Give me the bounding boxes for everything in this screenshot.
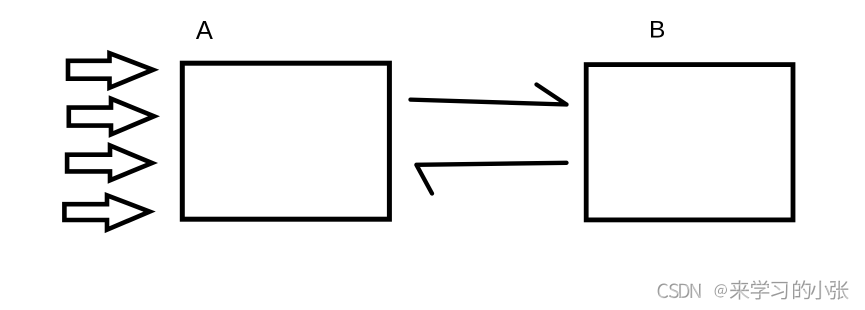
block B — [586, 65, 793, 220]
input arrow 2 — [69, 99, 154, 135]
svg-text:B: B — [649, 16, 665, 43]
block A — [182, 63, 389, 219]
input arrow 3 — [67, 146, 152, 181]
input arrow 4 — [64, 195, 149, 229]
arrow A to B (top, pointing right) — [411, 85, 567, 105]
svg-text:A: A — [196, 17, 213, 45]
input arrow 1 — [68, 53, 153, 87]
arrow B to A (bottom, pointing left) — [416, 163, 566, 194]
